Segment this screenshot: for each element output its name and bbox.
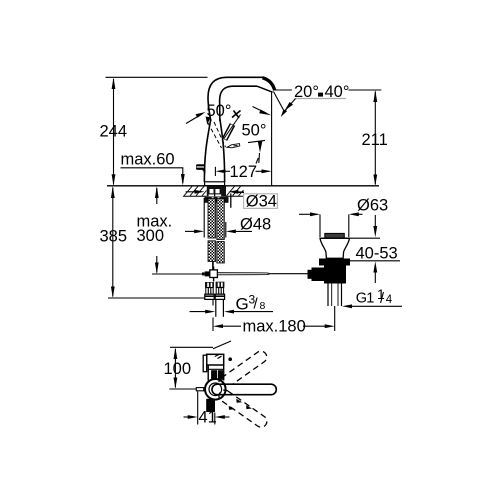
base plate: [205, 182, 225, 186]
svg-text:Ø34: Ø34: [246, 193, 277, 211]
faucet spout inner profile: [220, 86, 257, 121]
dashed lever axis lines inside body: [208, 123, 222, 148]
dimension O48: [185, 198, 252, 238]
dimension 244 vertical line: [112, 78, 116, 186]
svg-text:max.60: max.60: [121, 151, 175, 169]
pop-up rod cross fitting: [202, 267, 217, 282]
svg-text:127: 127: [230, 163, 258, 181]
dimension arrow G1 1/4: [342, 304, 402, 308]
leader for max.60: [121, 168, 185, 186]
svg-text:max.180: max.180: [243, 318, 306, 336]
arrow from 50deg to outlet vertical line: [253, 107, 272, 116]
small strokes below arrow: [258, 153, 261, 163]
down arrowhead on aerator leader: [258, 141, 263, 153]
horizontal actuating rod to drain: [217, 273, 308, 275]
svg-text:40-53: 40-53: [356, 245, 398, 263]
rod reference line (max300 bottom): [152, 273, 205, 275]
dimension 100: [169, 341, 231, 389]
dimension 211: [373, 90, 377, 186]
dimension max300 vertical: [155, 186, 159, 274]
flange funnel: [320, 238, 350, 258]
svg-text:100: 100: [164, 360, 192, 378]
pop-up rod knob at base left: [196, 164, 206, 173]
leader from aerator to down arrow: [248, 140, 265, 142]
svg-text:385: 385: [100, 228, 128, 246]
svg-text:41: 41: [199, 409, 217, 427]
flexible hose right upper: [217, 199, 225, 240]
rod joint knob: [312, 268, 326, 282]
svg-text:300: 300: [137, 227, 165, 245]
solid spout bar top view: [212, 384, 276, 395]
svg-text:G: G: [236, 295, 249, 314]
faucet body left edge: [204, 119, 210, 182]
leader line outlet level: [274, 89, 292, 91]
deck hatching left of shank: [184, 186, 207, 196]
deck underside lines: [183, 195, 207, 197]
label G1 1/4: [356, 286, 393, 307]
mounting nuts under deck: [205, 197, 229, 203]
label O34 with grey text box: [244, 193, 278, 211]
leader from x mark into lever: [224, 115, 241, 139]
x mark on spout edge: [232, 111, 241, 119]
wire: top extension line at spout top level: [106, 76, 208, 78]
svg-text:244: 244: [100, 123, 128, 141]
vertical extension from outlet down to deck: [271, 93, 273, 186]
deck hatching right of shank: [227, 186, 244, 196]
spout outlet lower lip: [257, 86, 273, 92]
plug cap: [325, 233, 345, 238]
dimension max.180: [213, 300, 335, 331]
dimension G3/8: [190, 310, 273, 314]
swivel arrowheads on dashed arc: [236, 399, 242, 403]
tailpipe: [328, 284, 342, 307]
spray angle lines and arrows: [274, 92, 296, 118]
flexible hose left upper: [208, 199, 216, 239]
G3/8 connector right: [215, 282, 224, 300]
dimension O63: [299, 212, 363, 237]
svg-text:50°: 50°: [242, 122, 267, 140]
label G3/8: [236, 293, 266, 314]
left tab on circle: [196, 388, 203, 391]
svg-text:4: 4: [386, 294, 393, 306]
black handle bar below circle: [206, 399, 215, 412]
spout outlet face: [263, 78, 275, 91]
bottom reference line for 385: [108, 297, 205, 299]
drain body: [324, 266, 346, 284]
body circle top view: [205, 379, 226, 400]
locknut: [319, 259, 350, 266]
dimension 41: [184, 392, 230, 425]
dimension 385: [111, 186, 115, 298]
temperature mark: [228, 357, 232, 361]
dimension O34: [186, 190, 244, 194]
threaded shank block in deck: [207, 186, 226, 197]
flexible hose left lower: [208, 241, 216, 262]
faucet spout outer profile: [208, 77, 263, 121]
lever handle (front view): [225, 125, 233, 140]
mounting deck line: [107, 185, 379, 187]
dimension 40-53: [350, 215, 401, 283]
G3/8 connector left: [205, 282, 214, 299]
aerator stream sketch: [227, 144, 240, 148]
arrow to riser for 50 deg: [186, 112, 206, 124]
connection tube below right connector: [216, 300, 224, 317]
faucet body right edge: [220, 119, 225, 182]
svg-text:8: 8: [260, 300, 266, 312]
dimension 127: [215, 167, 271, 176]
svg-text:G1: G1: [356, 291, 374, 307]
lever top view: [203, 354, 224, 380]
pull rod guide line below deck: [230, 194, 232, 208]
svg-text:Ø48: Ø48: [240, 215, 271, 233]
pop-up rod vertical between hoses: [212, 262, 214, 270]
small down arrow under 50 deg: [206, 117, 211, 126]
flexible hose right lower: [217, 242, 225, 264]
upper dashed spout position: [217, 349, 269, 391]
grey underline below 20-40: [296, 98, 347, 100]
svg-text:211: 211: [362, 131, 388, 149]
svg-text:Ø63: Ø63: [357, 197, 388, 215]
inner circle arc: [209, 383, 222, 396]
lower dashed spout position: [217, 388, 270, 430]
